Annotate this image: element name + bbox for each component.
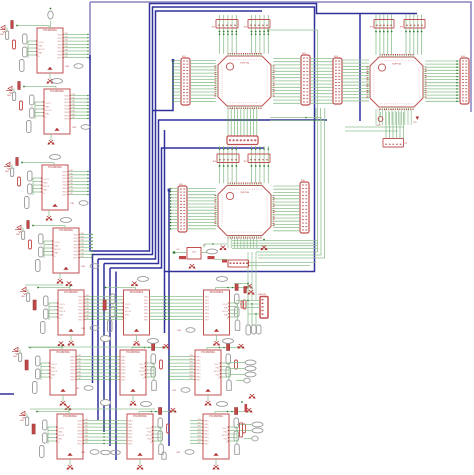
header JP2 — [244, 20, 270, 29]
nets east of ftdi — [249, 262, 317, 264]
ground flag — [246, 408, 252, 412]
svg-text:RB7: RB7 — [190, 378, 194, 380]
svg-text:9: 9 — [374, 73, 375, 75]
svg-text:OSC1: OSC1 — [125, 304, 132, 306]
testpoint stack B — [237, 394, 263, 441]
svg-text:RB7: RB7 — [86, 318, 90, 320]
fiducial — [177, 450, 195, 455]
svg-text:FID: FID — [76, 388, 80, 390]
connector SV1 — [181, 56, 190, 105]
connector SV6 — [300, 180, 309, 233]
IC IC3 — [42, 165, 68, 210]
svg-text:9: 9 — [222, 87, 223, 89]
long vertical nets right of cluster3 — [256, 30, 318, 252]
svg-text:9: 9 — [374, 97, 375, 99]
svg-text:TQFP144: TQFP144 — [392, 64, 402, 66]
svg-text:RB4: RB4 — [78, 368, 82, 370]
fiducial — [82, 326, 100, 331]
svg-text:9: 9 — [250, 103, 251, 105]
testpoint — [48, 11, 53, 19]
power symbol arrow — [416, 117, 420, 120]
svg-text:9: 9 — [267, 87, 268, 89]
testpoint ovals on bus — [101, 336, 111, 342]
svg-text:RB1: RB1 — [70, 173, 74, 175]
svg-text:9: 9 — [222, 202, 223, 204]
svg-text:RB7: RB7 — [78, 378, 82, 380]
svg-text:RB7: RB7 — [198, 442, 202, 444]
svg-text:RB5: RB5 — [78, 372, 82, 374]
wires to bus — [76, 355, 121, 380]
svg-text:RB0: RB0 — [198, 419, 202, 421]
fiducial — [71, 201, 89, 206]
small part bottom — [162, 452, 166, 459]
inter-row nets — [28, 346, 152, 348]
svg-text:PIC16F84A: PIC16F84A — [201, 350, 215, 354]
svg-text:RB2: RB2 — [72, 101, 76, 103]
svg-text:9: 9 — [250, 189, 251, 191]
IC IC1 — [37, 28, 63, 73]
wires to bus — [63, 33, 89, 58]
svg-text:9: 9 — [222, 74, 223, 76]
svg-text:9: 9 — [232, 189, 233, 191]
svg-text:FID: FID — [82, 266, 86, 268]
svg-text:PIC16F84A: PIC16F84A — [130, 290, 144, 294]
svg-text:9: 9 — [399, 61, 400, 63]
svg-text:9: 9 — [222, 204, 223, 206]
QFP U3 — [215, 183, 275, 239]
svg-text:MCLR: MCLR — [125, 311, 132, 313]
svg-text:9: 9 — [222, 215, 223, 217]
svg-text:9: 9 — [222, 221, 223, 223]
bus descender B — [103, 264, 105, 433]
svg-text:9: 9 — [374, 93, 375, 95]
connector SV5 — [178, 184, 187, 232]
svg-text:OSC1: OSC1 — [43, 179, 50, 181]
svg-text:RB7: RB7 — [65, 56, 69, 58]
svg-text:RB6: RB6 — [86, 315, 90, 317]
ground flag — [57, 279, 63, 283]
svg-text:LED: LED — [13, 356, 17, 358]
svg-text:RB1: RB1 — [190, 358, 194, 360]
svg-text:9: 9 — [222, 89, 223, 91]
svg-text:9: 9 — [267, 74, 268, 76]
svg-text:9: 9 — [261, 60, 262, 62]
wire fan — [150, 297, 204, 320]
svg-text:9: 9 — [419, 75, 420, 77]
svg-text:9: 9 — [419, 86, 420, 88]
svg-text:9: 9 — [384, 61, 385, 63]
svg-text:RB6: RB6 — [190, 375, 194, 377]
svg-text:9: 9 — [234, 103, 235, 105]
vertical wires — [316, 108, 325, 120]
svg-text:RB3: RB3 — [65, 43, 69, 45]
wire fan — [172, 60, 181, 103]
testpoint — [61, 218, 72, 223]
IC — [127, 414, 153, 459]
svg-text:PIC16F84A: PIC16F84A — [209, 414, 223, 418]
svg-text:9: 9 — [267, 77, 268, 79]
svg-text:OSC1: OSC1 — [45, 103, 52, 105]
svg-text:9: 9 — [267, 225, 268, 227]
svg-text:RB1: RB1 — [72, 97, 76, 99]
svg-text:RB7: RB7 — [85, 442, 89, 444]
ground flag — [189, 264, 195, 268]
svg-text:RB5: RB5 — [190, 372, 194, 374]
svg-text:9: 9 — [222, 200, 223, 202]
svg-text:9: 9 — [222, 96, 223, 98]
bus U1 — [90, 4, 417, 252]
vertical wires — [220, 146, 237, 183]
IC IC — [124, 290, 150, 335]
ground flag — [130, 401, 136, 405]
svg-text:9: 9 — [267, 223, 268, 225]
svg-text:9: 9 — [258, 232, 259, 234]
testpoint — [217, 402, 228, 407]
svg-text:9: 9 — [256, 103, 257, 105]
ground flag — [133, 341, 139, 345]
svg-text:9: 9 — [245, 189, 246, 191]
svg-text:9: 9 — [267, 79, 268, 81]
svg-text:RB6: RB6 — [198, 439, 202, 441]
svg-text:RB0: RB0 — [65, 33, 69, 35]
wire fan — [273, 186, 300, 231]
svg-text:9: 9 — [258, 60, 259, 62]
svg-text:9: 9 — [239, 60, 240, 62]
svg-text:OSC1: OSC1 — [214, 364, 221, 366]
svg-text:9: 9 — [230, 189, 231, 191]
svg-text:RB6: RB6 — [85, 439, 89, 441]
svg-text:9: 9 — [239, 232, 240, 234]
svg-text:9: 9 — [232, 103, 233, 105]
svg-text:LED: LED — [7, 95, 11, 97]
svg-text:9: 9 — [402, 61, 403, 63]
svg-text:9: 9 — [230, 103, 231, 105]
svg-text:MCLR: MCLR — [58, 435, 65, 437]
svg-text:RB4: RB4 — [86, 308, 90, 310]
svg-text:LED: LED — [5, 171, 9, 173]
ground flag — [48, 140, 54, 144]
svg-text:9: 9 — [230, 60, 231, 62]
svg-text:RB2: RB2 — [78, 362, 82, 364]
svg-text:9: 9 — [267, 204, 268, 206]
svg-text:RB6: RB6 — [70, 190, 74, 192]
svg-text:9: 9 — [419, 73, 420, 75]
ground flag — [246, 284, 252, 288]
svg-text:RB6: RB6 — [81, 253, 85, 255]
ground flag — [238, 344, 244, 348]
ground flag — [137, 465, 143, 469]
svg-text:9: 9 — [267, 94, 268, 96]
ground flag — [67, 465, 73, 469]
header — [383, 139, 404, 148]
svg-text:FID: FID — [73, 127, 77, 129]
svg-text:MCLR: MCLR — [59, 311, 66, 313]
svg-text:MCLR: MCLR — [222, 435, 229, 437]
svg-text:9: 9 — [267, 81, 268, 83]
bus descender C — [109, 268, 111, 446]
svg-text:PIC16F84A: PIC16F84A — [64, 290, 78, 294]
svg-text:RB0: RB0 — [72, 94, 76, 96]
svg-text:RB1: RB1 — [198, 422, 202, 424]
passives cluster (LED, R, C) — [15, 221, 65, 272]
svg-text:RB0: RB0 — [70, 170, 74, 172]
svg-text:RB3: RB3 — [198, 429, 202, 431]
svg-text:9: 9 — [382, 61, 383, 63]
svg-text:9: 9 — [241, 103, 242, 105]
svg-text:RB0: RB0 — [85, 419, 89, 421]
svg-text:9: 9 — [236, 232, 237, 234]
ground flag — [60, 401, 66, 405]
svg-text:RB5: RB5 — [81, 250, 85, 252]
svg-text:9: 9 — [222, 223, 223, 225]
svg-text:9: 9 — [419, 80, 420, 82]
svg-text:9: 9 — [243, 60, 244, 62]
svg-text:RB3: RB3 — [81, 243, 85, 245]
svg-text:9: 9 — [261, 103, 262, 105]
IC IC — [58, 290, 84, 335]
svg-text:RB6: RB6 — [72, 114, 76, 116]
svg-text:9: 9 — [250, 60, 251, 62]
svg-text:RB7: RB7 — [72, 117, 76, 119]
svg-text:RB1: RB1 — [78, 358, 82, 360]
vertical wires — [252, 146, 269, 183]
compact passives cluster — [103, 282, 138, 333]
wire fan — [187, 189, 216, 229]
passives cluster (LED, R, C) — [0, 21, 49, 72]
vertical wires — [252, 15, 269, 54]
voltage regulator block — [173, 243, 227, 268]
fiducial — [82, 450, 100, 455]
svg-text:RB2: RB2 — [70, 177, 74, 179]
svg-text:RB2: RB2 — [81, 240, 85, 242]
svg-text:9: 9 — [245, 232, 246, 234]
svg-text:FID: FID — [178, 330, 182, 332]
svg-text:9: 9 — [267, 68, 268, 70]
bus J1 feed U-loop — [153, 61, 174, 111]
wire fan — [232, 241, 318, 249]
svg-text:9: 9 — [222, 225, 223, 227]
svg-text:MCLR: MCLR — [45, 110, 52, 112]
svg-text:9: 9 — [247, 60, 248, 62]
svg-text:9: 9 — [252, 103, 253, 105]
svg-text:RB4: RB4 — [190, 368, 194, 370]
header JP7 — [244, 154, 270, 163]
IC — [120, 350, 146, 395]
header JP3 — [370, 20, 394, 29]
svg-text:RB3: RB3 — [78, 365, 82, 367]
svg-text:9: 9 — [374, 78, 375, 80]
svg-text:9: 9 — [380, 104, 381, 106]
svg-text:RB6: RB6 — [78, 375, 82, 377]
testpoint — [207, 249, 218, 254]
svg-text:9: 9 — [222, 206, 223, 208]
wire fan — [425, 61, 460, 101]
svg-text:9: 9 — [267, 92, 268, 94]
svg-text:9: 9 — [267, 221, 268, 223]
ground flag — [213, 465, 219, 469]
svg-text:9: 9 — [267, 206, 268, 208]
svg-text:9: 9 — [374, 71, 375, 73]
svg-text:RB1: RB1 — [86, 298, 90, 300]
FTDI header strip — [215, 259, 249, 267]
svg-text:9: 9 — [419, 88, 420, 90]
junction dots on bus H120 — [227, 119, 229, 121]
svg-text:9: 9 — [243, 232, 244, 234]
svg-text:9: 9 — [419, 78, 420, 80]
ground flag — [68, 341, 74, 345]
vertical wires — [248, 252, 256, 300]
svg-text:9: 9 — [267, 197, 268, 199]
ground flag — [205, 401, 211, 405]
svg-text:9: 9 — [267, 89, 268, 91]
svg-text:RB0: RB0 — [190, 355, 194, 357]
connector SV3 — [333, 56, 342, 104]
svg-text:9: 9 — [399, 104, 400, 106]
IC IC4 — [53, 228, 79, 273]
svg-text:9: 9 — [241, 60, 242, 62]
svg-text:9: 9 — [222, 68, 223, 70]
testpoint — [223, 339, 234, 344]
svg-text:9: 9 — [256, 60, 257, 62]
svg-text:9: 9 — [413, 61, 414, 63]
ground flag — [213, 341, 219, 345]
svg-text:PIC16F84A: PIC16F84A — [59, 228, 73, 232]
svg-text:PIC16F84A: PIC16F84A — [50, 89, 64, 93]
svg-text:9: 9 — [267, 219, 268, 221]
vertical wires — [376, 109, 411, 125]
bus drop to qfp2 nets — [359, 14, 361, 122]
passives cluster right (LED, R, C) — [139, 408, 176, 455]
svg-text:9: 9 — [245, 103, 246, 105]
svg-text:9: 9 — [247, 103, 248, 105]
svg-text:9: 9 — [406, 61, 407, 63]
svg-text:9: 9 — [402, 104, 403, 106]
svg-text:FID: FID — [177, 452, 181, 454]
connector SV2 — [301, 53, 310, 105]
QFP U1 — [215, 53, 275, 109]
svg-text:9: 9 — [254, 189, 255, 191]
vertical wires — [376, 15, 392, 55]
svg-text:OSC1: OSC1 — [139, 364, 146, 366]
svg-text:9: 9 — [261, 189, 262, 191]
IC IC — [57, 414, 83, 459]
ground flag — [47, 79, 53, 83]
svg-text:9: 9 — [386, 104, 387, 106]
svg-text:9: 9 — [258, 189, 259, 191]
svg-text:9: 9 — [254, 232, 255, 234]
vertical wires — [220, 15, 237, 54]
svg-text:9: 9 — [374, 80, 375, 82]
svg-text:OSC1: OSC1 — [54, 242, 61, 244]
svg-text:9: 9 — [374, 75, 375, 77]
ground flag — [66, 282, 72, 286]
svg-text:9: 9 — [419, 69, 420, 71]
bus descender A — [92, 255, 94, 384]
svg-text:9: 9 — [380, 61, 381, 63]
fiducial — [82, 264, 100, 269]
svg-text:MCLR: MCLR — [222, 311, 229, 313]
svg-text:9: 9 — [222, 210, 223, 212]
bus stub left edge — [0, 393, 14, 395]
svg-text:RB3: RB3 — [70, 180, 74, 182]
svg-text:9: 9 — [236, 103, 237, 105]
svg-text:9: 9 — [245, 60, 246, 62]
svg-text:9: 9 — [252, 60, 253, 62]
svg-text:9: 9 — [393, 61, 394, 63]
svg-text:RB3: RB3 — [190, 365, 194, 367]
svg-text:9: 9 — [419, 82, 420, 84]
svg-text:OSC1: OSC1 — [58, 428, 65, 430]
svg-text:9: 9 — [406, 104, 407, 106]
svg-text:9: 9 — [374, 90, 375, 92]
svg-text:MCLR: MCLR — [43, 186, 50, 188]
svg-text:MCLR: MCLR — [38, 49, 45, 51]
testpoint — [148, 339, 159, 344]
svg-text:RB1: RB1 — [65, 36, 69, 38]
svg-text:9: 9 — [267, 215, 268, 217]
svg-text:9: 9 — [232, 60, 233, 62]
svg-text:LED: LED — [20, 420, 24, 422]
QFP U2 — [367, 54, 427, 110]
svg-text:FID: FID — [173, 390, 177, 392]
svg-text:9: 9 — [267, 208, 268, 210]
bus frame left drop — [89, 2, 91, 60]
svg-text:RB5: RB5 — [198, 436, 202, 438]
svg-text:TQFP144: TQFP144 — [240, 192, 250, 194]
svg-text:VCC: VCC — [413, 122, 418, 124]
power symbol circle — [378, 117, 383, 122]
fiducial — [173, 388, 191, 393]
passives cluster right (LED, R, C) — [207, 344, 244, 391]
svg-text:9: 9 — [395, 61, 396, 63]
svg-text:9: 9 — [247, 189, 248, 191]
svg-text:RB4: RB4 — [72, 107, 76, 109]
svg-text:RB5: RB5 — [72, 111, 76, 113]
passives cluster right (LED, R, C) — [215, 408, 252, 455]
svg-text:RB2: RB2 — [86, 302, 90, 304]
svg-text:9: 9 — [247, 232, 248, 234]
svg-text:OSC1: OSC1 — [146, 428, 153, 430]
svg-text:MCLR: MCLR — [51, 371, 58, 373]
svg-text:9: 9 — [408, 104, 409, 106]
passives cluster (LED, R, C) — [4, 158, 54, 209]
svg-text:9: 9 — [252, 189, 253, 191]
vertical wires — [228, 238, 257, 248]
svg-text:PIC16F84A: PIC16F84A — [48, 165, 62, 169]
svg-text:9: 9 — [382, 104, 383, 106]
svg-text:9: 9 — [261, 232, 262, 234]
svg-text:9: 9 — [222, 217, 223, 219]
vertical wires — [406, 15, 422, 55]
svg-text:9: 9 — [391, 61, 392, 63]
wires to bus — [83, 419, 128, 444]
svg-text:RB5: RB5 — [70, 187, 74, 189]
svg-text:OSC1: OSC1 — [51, 364, 58, 366]
svg-text:9: 9 — [222, 66, 223, 68]
wire fan — [342, 60, 369, 101]
testpoint — [50, 155, 61, 160]
svg-text:9: 9 — [374, 88, 375, 90]
svg-text:RB5: RB5 — [65, 50, 69, 52]
ground flag — [65, 406, 71, 410]
svg-text:9: 9 — [234, 232, 235, 234]
nets west of JP5 — [345, 126, 404, 128]
fiducial — [73, 125, 91, 130]
svg-text:9: 9 — [234, 60, 235, 62]
svg-text:9: 9 — [222, 94, 223, 96]
bus frame top/right — [90, 2, 471, 112]
wires to bus — [68, 170, 89, 195]
